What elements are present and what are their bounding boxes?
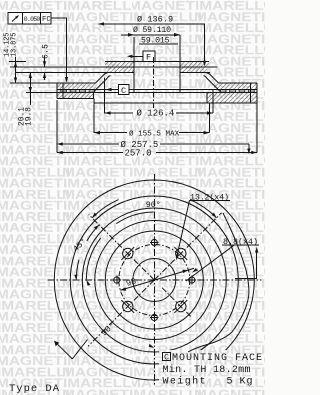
front view diagonal centerline 225deg [88,280,154,346]
section: right rim inner line [249,83,251,103]
svg-text:0.050: 0.050 [24,16,41,23]
section: bottom plate inner edges [93,93,95,99]
section: rim edges [56,83,58,99]
svg-text:Weight: Weight [163,375,206,387]
bolt circle dash-dot [119,245,190,316]
section: lower lip line [94,102,257,104]
section: hat top face [105,61,209,63]
section: mounting face line + left extension [10,66,217,68]
datum C box + leader [106,85,129,95]
circle r81 [70,196,238,364]
svg-text:8.8(x4): 8.8(x4) [223,237,258,247]
circle r73 [82,208,226,352]
section: hatch left top plate [57,83,95,89]
FC leader down to friction surface [51,18,67,79]
section: hatch right bottom plate [207,93,257,103]
svg-text:Kg: Kg [240,376,253,387]
angle dim 90deg bottom-left arc [86,212,154,348]
dim D155.5 MAX [94,99,210,135]
svg-text:Ø 126.4: Ø 126.4 [137,109,175,119]
svg-text:Type DA: Type DA [9,383,60,395]
section: vane marks [61,90,254,92]
front view diagonal centerline 315deg short [162,288,192,318]
large hole 315deg [174,300,187,313]
leader 8.8(x4) [186,245,259,281]
svg-text:Ø 136.9: Ø 136.9 [137,15,173,25]
svg-text:19.8: 19.8 [25,107,34,126]
section: top plate ext line left [10,82,57,84]
front view diagonal centerline 45deg [154,213,221,280]
hub bore circle [133,259,176,302]
flag arrow bottom-left [54,340,88,359]
svg-text:C: C [164,353,169,363]
label background occluder [159,350,265,386]
small hole top [150,238,159,247]
datum F box + leader [127,51,155,62]
svg-text:257.0: 257.0 [125,148,152,158]
section: hatch flange right [180,62,209,73]
front view centerline horizontal [48,279,262,281]
section: hat wall left outer ramp [96,73,108,83]
section: vent top line [57,88,257,90]
section: flange underside + left extension [15,72,134,74]
feature control frame runout 0.050 FC [8,13,51,25]
dimension D136.9 [99,22,207,66]
dim D257.5 / 257.0 [57,100,257,154]
dim 14.125/13.875 vertical [9,57,26,83]
text C MOUNTING FACE [163,353,263,364]
section: hat wall right inner ramp [204,76,221,92]
outer disc circle [54,180,254,380]
dim 6.5 vertical [43,56,46,80]
circle r59.5 friction inner [95,221,214,340]
section: bore walls D59 [133,62,135,92]
svg-text:5: 5 [227,376,233,387]
long leader mounting face [188,213,249,352]
section: hat wall right outer ramp [207,73,219,83]
svg-text:Ø 59.110: Ø 59.110 [133,25,171,35]
angle dim 45deg arc [74,225,99,280]
svg-text:90°: 90° [146,200,161,210]
svg-text:F: F [146,53,151,63]
circle r49 hat [105,231,203,329]
svg-text:59.015: 59.015 [141,37,170,46]
section: left rim inner line [62,83,64,99]
front view centerline vertical [153,174,155,386]
angle dim 90deg top arc [92,200,216,218]
small hole bottom [150,313,159,322]
large hole 135deg [121,247,134,260]
section: vent bottom line [57,92,257,94]
svg-text:13.2(x4): 13.2(x4) [190,192,229,202]
section: bottom plate lower faces [57,98,93,100]
svg-text:C: C [121,86,126,96]
section centerline [152,57,154,108]
svg-text:6.5: 6.5 [42,44,51,59]
small hole right [188,276,197,285]
dimension D59.110/59.015 [121,33,180,62]
svg-text:MOUNTING FACE: MOUNTING FACE [172,353,262,364]
section: hatch left bottom plate [57,93,93,99]
large hole 225deg [121,300,134,313]
svg-text:Min. TH 18.2mm: Min. TH 18.2mm [163,364,251,376]
svg-text:13.875: 13.875 [11,33,19,58]
svg-text:FC: FC [42,16,51,24]
large hole 45deg [174,247,187,260]
dim D126.4 [105,78,213,115]
section: 20.1 ext line [26,92,57,94]
dim 98 bolt circle [120,268,194,290]
dim 20.1/19.8 vertical [29,73,32,105]
section: hat wall left inner ramp [94,76,111,92]
leader 13.2(x4) [176,200,230,260]
small hole left [113,276,122,285]
front view diagonal centerline 135deg [89,215,155,281]
section: hatch right top plate [214,83,257,89]
section: hatch flange left [105,62,134,73]
svg-text:Ø 155.5 MAX: Ø 155.5 MAX [129,129,180,138]
section: friction ring top faces [57,82,95,84]
